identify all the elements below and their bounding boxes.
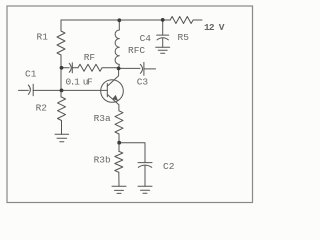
svg-text:RF: RF xyxy=(84,52,96,63)
svg-text:R2: R2 xyxy=(36,103,48,114)
svg-text:R3a: R3a xyxy=(94,113,111,124)
svg-text:R5: R5 xyxy=(178,32,190,43)
svg-text:C1: C1 xyxy=(25,69,37,80)
svg-text:C4: C4 xyxy=(140,33,152,44)
svg-text:12 V: 12 V xyxy=(204,22,225,33)
svg-text:C2: C2 xyxy=(163,161,175,172)
svg-text:R3b: R3b xyxy=(94,154,111,165)
svg-text:RFC: RFC xyxy=(128,45,145,56)
svg-text:C3: C3 xyxy=(137,77,149,88)
svg-text:R1: R1 xyxy=(37,32,49,43)
svg-text:0.1 uF: 0.1 uF xyxy=(66,76,94,87)
